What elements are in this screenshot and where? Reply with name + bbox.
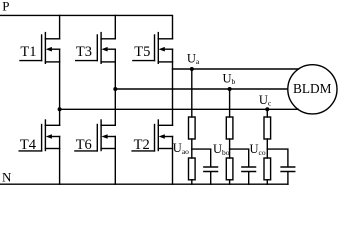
svg-text:T6: T6	[76, 137, 92, 153]
svg-text:Ub: Ub	[223, 71, 236, 86]
svg-text:Uco: Uco	[250, 142, 266, 157]
svg-text:Uao: Uao	[173, 141, 189, 156]
svg-text:P: P	[2, 0, 9, 14]
svg-text:BLDM: BLDM	[293, 81, 332, 96]
svg-text:T2: T2	[134, 137, 150, 153]
svg-text:Ubo: Ubo	[213, 142, 230, 157]
svg-text:T4: T4	[20, 137, 37, 153]
svg-text:Ua: Ua	[187, 51, 200, 66]
svg-text:T3: T3	[76, 44, 92, 60]
svg-text:Uc: Uc	[259, 93, 272, 108]
svg-text:T5: T5	[134, 44, 150, 60]
svg-text:T1: T1	[20, 44, 36, 60]
svg-text:N: N	[2, 170, 12, 185]
